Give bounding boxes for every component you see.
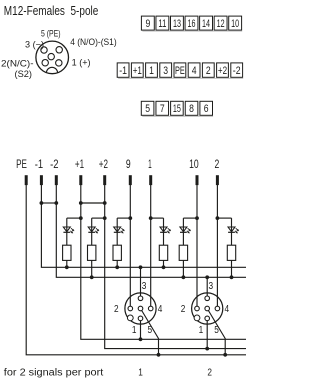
junction X1 pin5 on PE rail: [157, 353, 161, 357]
terminal bar -1: [40, 175, 43, 185]
svg-text:3: 3: [163, 65, 168, 77]
connector X1 pin 5 (center): [138, 306, 143, 311]
junction X2 pin5 on PE rail: [223, 353, 227, 357]
wire resistor R6 to minus-2 bus: [231, 260, 233, 277]
wire LED branch 5 vertical: [182, 218, 184, 245]
wire LED branch 2 top connection: [92, 217, 105, 219]
svg-text:1: 1: [149, 65, 154, 77]
svg-text:+2: +2: [99, 159, 108, 171]
junction +2 jumper: [103, 201, 107, 205]
connector X1 pin 2 (left): [128, 306, 133, 311]
legend pin 1 bottom-right: [56, 60, 62, 66]
junction X1 pin1 on plus-1 rail: [139, 337, 143, 341]
wire resistor R4 to minus-1 bus: [163, 260, 165, 267]
LED V5: [180, 227, 191, 233]
terminal bar 1: [149, 175, 152, 185]
wire terminal 10 to connector X2 pin 2: [196, 184, 198, 309]
svg-text:8: 8: [189, 103, 194, 115]
svg-text:1 (+): 1 (+): [72, 58, 91, 68]
connector X1 pin 1 (bottom): [138, 316, 143, 321]
wire X1 pin 5 to PE rail: [141, 309, 159, 355]
LED V2: [88, 227, 99, 233]
svg-text:14: 14: [202, 18, 210, 30]
wire terminal 2 to connector X2 pin 4: [216, 184, 218, 309]
svg-text:10: 10: [189, 159, 199, 171]
connector X2 pin 1 (bottom): [205, 316, 210, 321]
junction -2 jumper: [54, 201, 58, 205]
svg-text:5: 5: [148, 325, 153, 336]
wire LED branch 4 top connection: [151, 217, 164, 219]
wire LED branch 1 top connection: [67, 217, 81, 219]
junction R6 on minus-2 bus: [230, 275, 234, 279]
svg-text:10: 10: [231, 18, 239, 30]
svg-text:4: 4: [225, 304, 230, 315]
terminal bar 10: [196, 175, 199, 185]
wire +2 vertical and plus-2 rail: [105, 184, 246, 349]
wire LED branch 1 vertical: [66, 218, 68, 245]
wire resistor R2 to minus-2 bus: [91, 260, 93, 277]
svg-text:2: 2: [215, 159, 220, 171]
wire -2 vertical and minus-2 bus: [56, 184, 246, 277]
svg-text:4: 4: [192, 65, 197, 77]
svg-text:5: 5: [145, 103, 150, 115]
wire LED branch 6 top connection: [217, 217, 231, 219]
wire LED branch 2 vertical: [91, 218, 93, 245]
junction LED branch 1 tap: [79, 216, 83, 220]
resistor R1: [63, 245, 71, 260]
terminal bar +2: [103, 175, 106, 185]
resistor R5: [179, 245, 187, 260]
legend pin 2 bottom-left: [42, 60, 48, 66]
junction X2 pin3 drop: [205, 275, 209, 279]
svg-text:3: 3: [142, 281, 147, 292]
svg-text:+1: +1: [133, 65, 142, 77]
svg-text:-2: -2: [233, 65, 241, 77]
terminal bar -2: [55, 175, 58, 185]
svg-text:1: 1: [132, 325, 137, 336]
connector X2 keying notch: [194, 315, 200, 321]
junction LED branch 2 tap: [103, 216, 107, 220]
wire minus bus to connector X1 pin 3: [140, 267, 142, 298]
legend pin 4 top-right: [56, 47, 62, 53]
svg-text:-1: -1: [119, 65, 127, 77]
svg-text:16: 16: [188, 18, 196, 30]
junction X1 pin3 drop: [139, 265, 143, 269]
LED V1: [63, 227, 74, 233]
legend pin 3 top-left: [41, 47, 47, 53]
wire LED branch 4 vertical: [163, 218, 165, 245]
svg-text:for 2 signals per port: for 2 signals per port: [4, 367, 104, 378]
LED V4: [160, 227, 171, 233]
svg-text:3: 3: [209, 281, 214, 292]
connector X1 body circle: [125, 293, 156, 324]
svg-text:4 (N/O)-(S1): 4 (N/O)-(S1): [70, 37, 117, 47]
svg-text:12: 12: [217, 18, 225, 30]
wire LED branch 3 top connection: [117, 217, 130, 219]
svg-text:9: 9: [126, 159, 131, 171]
wire resistor R1 to minus-1 bus: [66, 260, 68, 267]
wire +1 vertical and plus-1 rail: [81, 184, 246, 339]
resistor R6: [227, 245, 235, 260]
svg-text:11: 11: [158, 18, 166, 30]
wire X1 pin 1 to plus-1 rail: [140, 318, 142, 339]
junction R5 on minus-2 bus: [182, 275, 186, 279]
terminal box row 5 7 15 8 6: [141, 101, 213, 116]
LED V6: [228, 227, 239, 233]
junction R1 on minus-1 bus: [65, 265, 69, 269]
svg-text:(S2): (S2): [15, 69, 33, 79]
junction +1 jumper: [79, 201, 83, 205]
wire terminal 1 to connector X1 pin 4: [150, 184, 152, 309]
wire jumper -1 to -2: [41, 202, 56, 204]
resistor R3: [113, 245, 121, 260]
svg-text:1: 1: [148, 159, 152, 171]
junction LED branch 4 tap: [149, 216, 153, 220]
terminal bar +1: [79, 175, 82, 185]
connector X2 pin 4 (right): [215, 306, 220, 311]
svg-text:+2: +2: [218, 65, 227, 77]
svg-text:+1: +1: [75, 159, 84, 171]
terminal box row 9 11 13 16 14 12 10: [141, 16, 242, 31]
junction LED branch 5 tap: [195, 216, 199, 220]
svg-text:1: 1: [199, 325, 204, 336]
resistor R4: [159, 245, 167, 260]
legend pin 5 (PE) center: [48, 53, 54, 59]
svg-text:7: 7: [160, 103, 165, 115]
LED V3: [114, 227, 125, 233]
wire minus bus to connector X2 pin 3: [206, 277, 208, 298]
wire LED branch 6 vertical: [231, 218, 233, 245]
svg-text:5: 5: [214, 325, 219, 336]
wire PE vertical and PE rail: [26, 184, 246, 355]
svg-text:-1: -1: [35, 159, 43, 171]
wire LED branch 3 vertical: [116, 218, 118, 245]
terminal bar 9: [129, 175, 132, 185]
svg-text:15: 15: [173, 103, 181, 115]
junction R4 on minus-1 bus: [162, 265, 166, 269]
connector X2 pin 5 (center): [205, 306, 210, 311]
wire terminal 9 to connector X1 pin 2: [129, 184, 131, 309]
svg-text:M12-Females 5-pole: M12-Females 5-pole: [4, 3, 99, 18]
connector X2 pin 3 (top): [205, 296, 210, 301]
svg-text:2: 2: [207, 367, 212, 378]
wire LED branch 5 top connection: [183, 217, 197, 219]
svg-text:2: 2: [181, 304, 186, 315]
legend keying notch: [46, 67, 57, 73]
svg-text:2: 2: [114, 304, 119, 315]
svg-text:5 (PE): 5 (PE): [41, 28, 61, 38]
svg-text:13: 13: [173, 18, 181, 30]
svg-text:PE: PE: [175, 65, 185, 77]
terminal bar PE: [25, 175, 28, 185]
junction LED branch 6 tap: [216, 216, 220, 220]
svg-text:-2: -2: [50, 159, 58, 171]
svg-text:2: 2: [206, 65, 211, 77]
junction R2 on minus-2 bus: [90, 275, 94, 279]
connector X2 pin 2 (left): [195, 306, 200, 311]
svg-text:PE: PE: [16, 159, 27, 171]
terminal box row -1 +1 1 3 PE 4 2 +2 -2: [117, 63, 243, 79]
terminal bar 2: [216, 175, 219, 185]
svg-text:2(N/C)-: 2(N/C)-: [1, 59, 34, 69]
wire resistor R5 to minus-2 bus: [182, 260, 184, 277]
wire jumper +1 to +2: [81, 202, 105, 204]
connector X1 keying notch: [127, 315, 133, 321]
junction X2 pin1 on plus-2 rail: [205, 347, 209, 351]
connector legend face M12 female 5-pole: [36, 41, 69, 74]
junction -1 jumper: [40, 201, 44, 205]
resistor R2: [88, 245, 96, 260]
svg-text:4: 4: [158, 304, 163, 315]
svg-text:3 (−): 3 (−): [25, 40, 44, 50]
wire X2 pin 1 to plus-2 rail: [206, 318, 208, 348]
connector X1 pin 4 (right): [148, 306, 153, 311]
junction LED branch 3 tap: [128, 216, 132, 220]
svg-text:9: 9: [145, 18, 150, 30]
wire X2 pin 5 to PE rail: [207, 309, 225, 355]
svg-text:1: 1: [138, 367, 143, 378]
connector X2 body circle: [192, 293, 223, 324]
svg-text:6: 6: [204, 103, 209, 115]
wire resistor R3 to minus-1 bus: [116, 260, 118, 267]
junction R3 on minus-1 bus: [115, 265, 119, 269]
wire -1 vertical and minus-1 bus: [41, 184, 246, 267]
connector X1 pin 3 (top): [138, 296, 143, 301]
